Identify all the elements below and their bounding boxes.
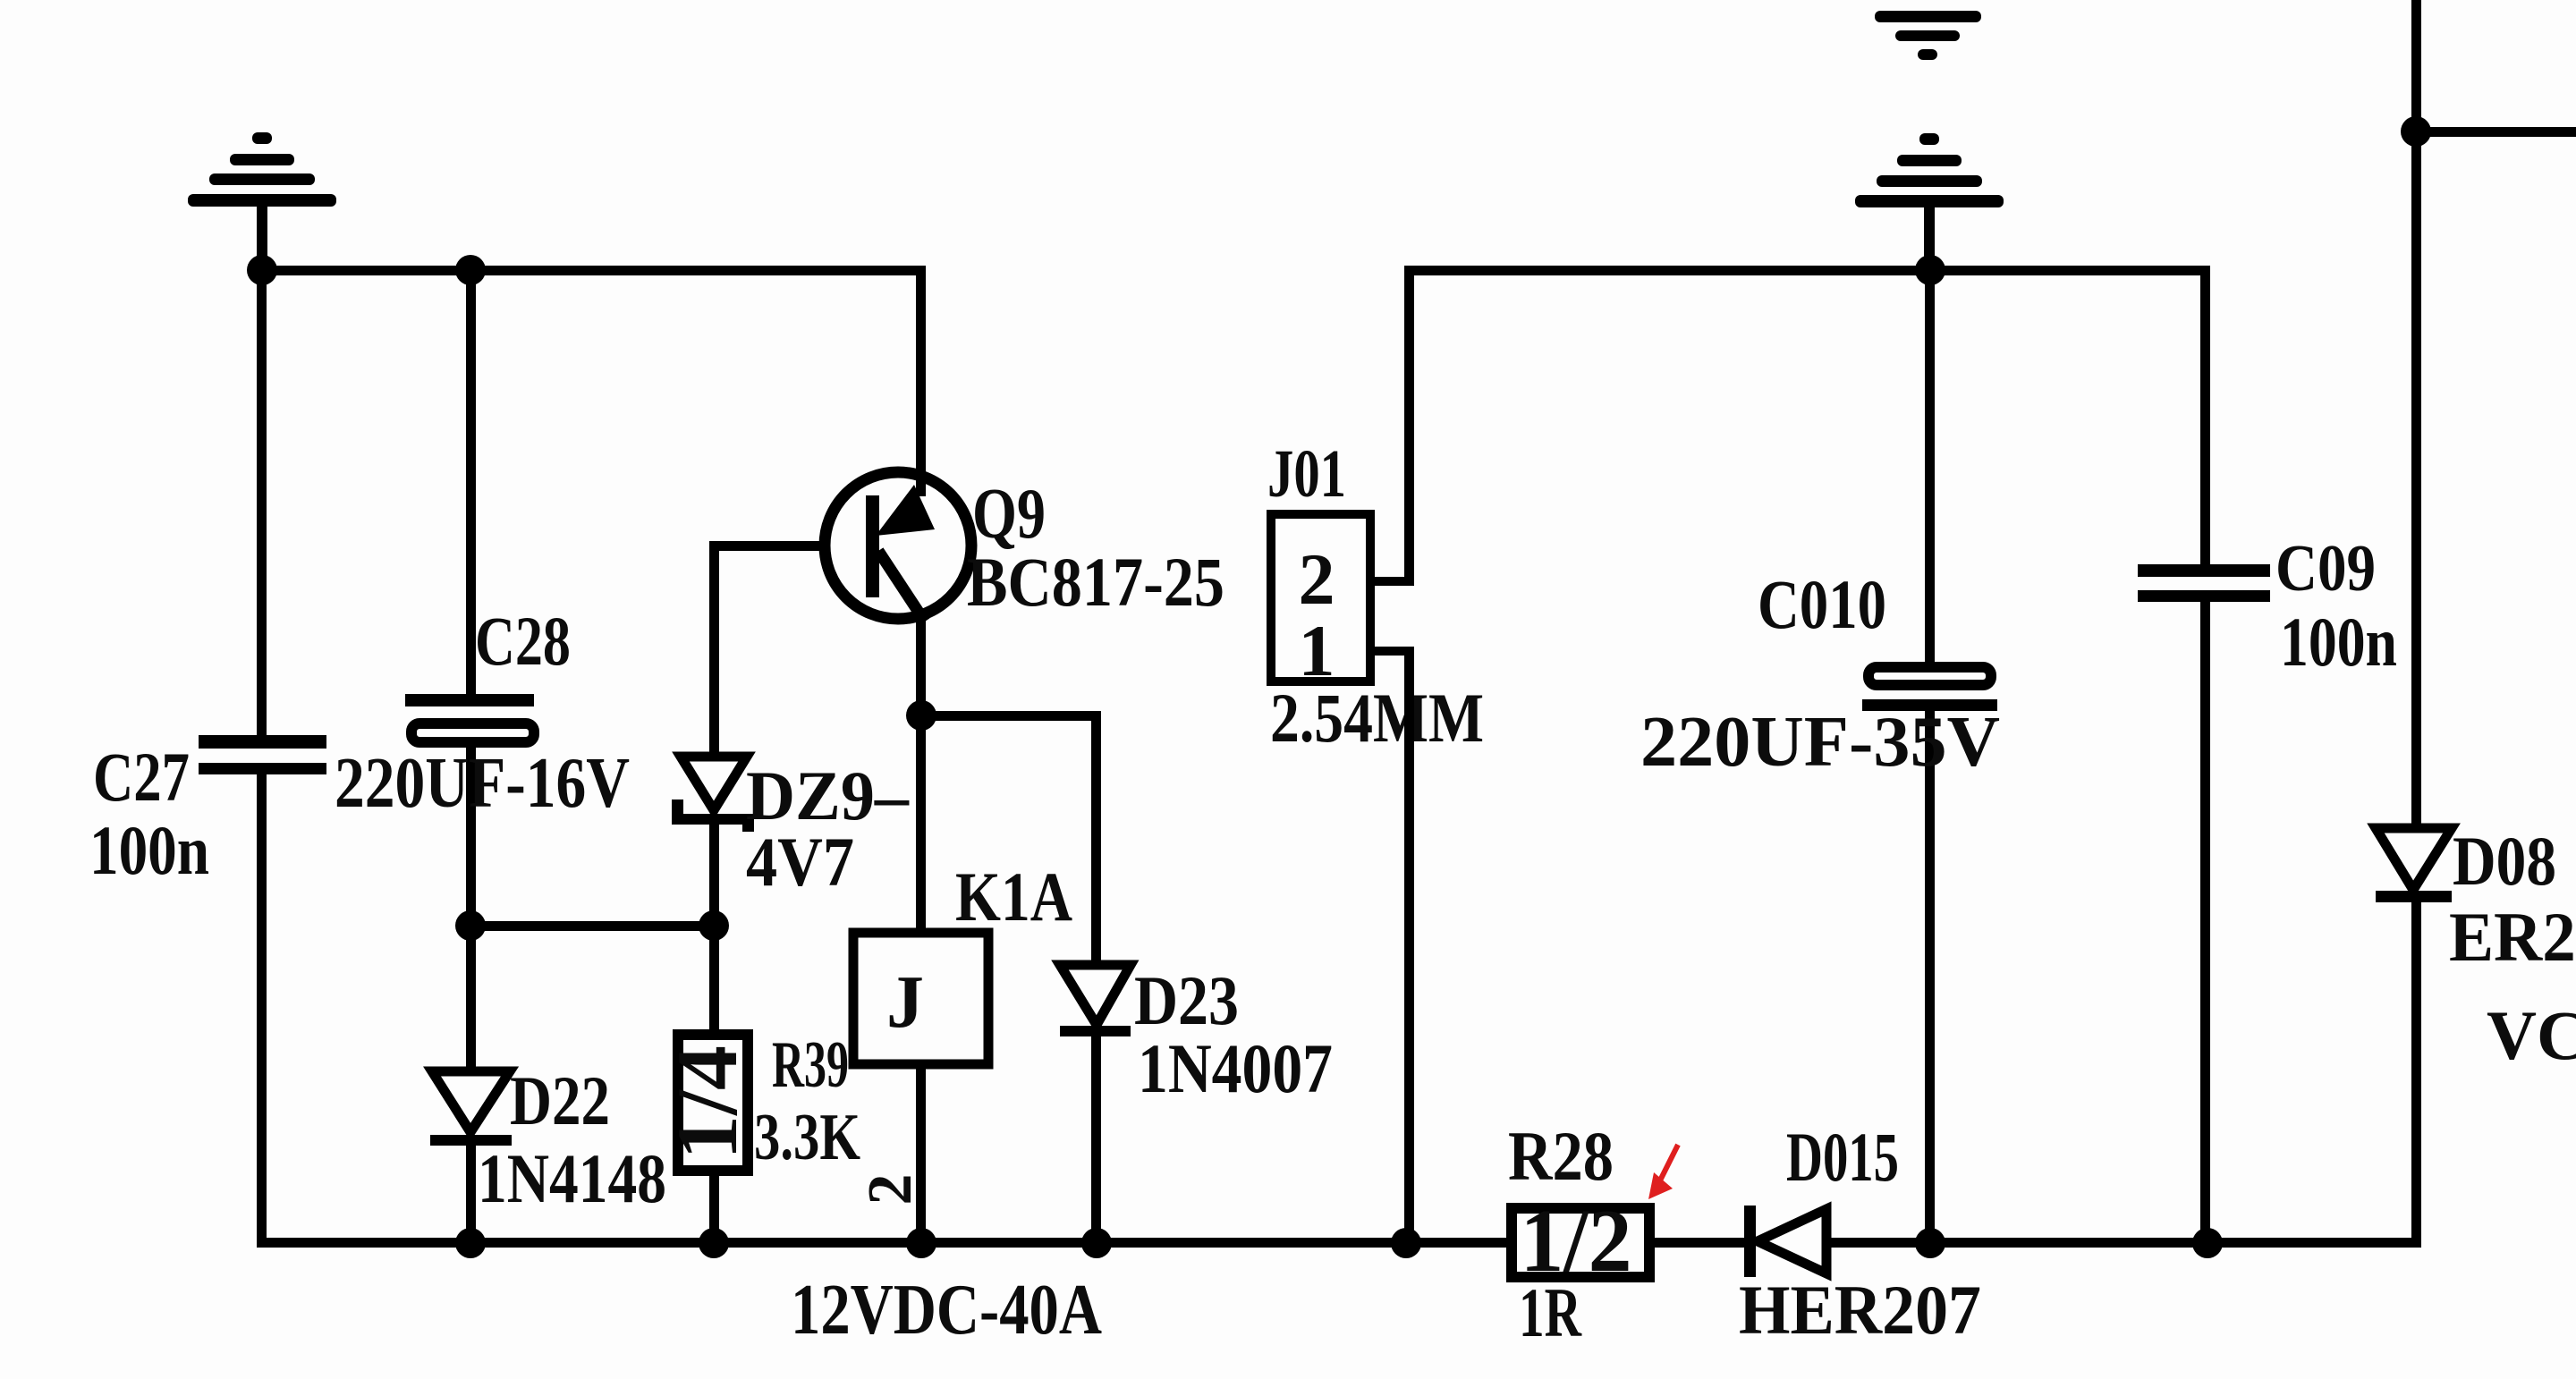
wire: bottom bus left segment (y=1390)	[257, 1238, 1506, 1248]
node: bottom bus junction C010 column	[1915, 1228, 1945, 1258]
svg-text:R28: R28	[1508, 1117, 1614, 1195]
diode D23	[1060, 965, 1131, 1244]
svg-text:100n: 100n	[2280, 603, 2397, 681]
svg-text:1R: 1R	[1519, 1273, 1582, 1351]
node: junction at (2701,147)	[2401, 116, 2431, 147]
zener diode DZ9	[672, 757, 754, 832]
svg-text:R39: R39	[772, 1028, 849, 1102]
svg-text:C27: C27	[93, 738, 190, 816]
svg-text:HER207: HER207	[1739, 1271, 1981, 1349]
transistor Q9	[825, 472, 971, 622]
wire: DZ9 down to junction and R39	[709, 825, 719, 1035]
capacitor C010	[1862, 270, 1997, 1243]
wire: Q9 base lead to left then down	[709, 541, 829, 551]
diode D08	[2376, 828, 2452, 1248]
svg-text:100n: 100n	[89, 811, 209, 889]
resistor R28	[1512, 1190, 1649, 1290]
wire: bottom bus right segment	[1826, 1238, 2420, 1248]
node: bottom bus junction J01 pin1 column	[1391, 1228, 1421, 1258]
node: bottom bus junction C28/D22 column	[455, 1228, 486, 1258]
wire: branch to D23 (y=800)	[921, 711, 1101, 721]
wire: Q9 collector down to K1A	[916, 608, 926, 932]
ground symbol (top left)	[188, 132, 336, 270]
capacitor C28	[405, 270, 534, 930]
wire: horizontal joining C28 column to DZ9 column (y=1035)	[470, 921, 714, 931]
wire: J01 pin2 up to right bus	[1404, 266, 1414, 586]
svg-text:ER2D: ER2D	[2449, 898, 2576, 976]
svg-text:2: 2	[856, 1174, 925, 1206]
wire: stub to right edge (y=147)	[2416, 127, 2576, 137]
node: junction at (798,1035)	[699, 910, 729, 941]
capacitor C27	[199, 270, 326, 1245]
svg-text:C28: C28	[475, 602, 571, 680]
svg-text:C09: C09	[2275, 532, 2376, 605]
svg-text:C010: C010	[1758, 565, 1886, 643]
svg-text:J: J	[886, 960, 924, 1044]
node: bottom bus junction R39 column	[699, 1228, 729, 1258]
ground symbol (top right, with stem)	[1855, 133, 2004, 270]
node: junction right bus / C010 column	[1915, 255, 1945, 285]
node: junction top bus / C27 column	[247, 255, 277, 285]
wire: far right vertical	[2411, 0, 2421, 828]
wire: R28 to D015	[1652, 1238, 1747, 1248]
svg-text:D23: D23	[1134, 961, 1239, 1039]
node: junction at (1030,800)	[906, 700, 936, 731]
connector J01	[1271, 514, 1410, 691]
svg-text:1N4007: 1N4007	[1138, 1029, 1333, 1107]
node: bottom bus junction C09 column	[2192, 1228, 2223, 1258]
node: junction at (526,1035)	[455, 910, 486, 941]
resistor R39	[659, 1024, 755, 1243]
diode D22	[430, 926, 512, 1244]
svg-text:2.54MM: 2.54MM	[1270, 679, 1484, 757]
pin label 2 (K1A bottom, rotated)	[856, 1174, 925, 1206]
relay coil K1A	[853, 933, 988, 1245]
svg-text:VCC: VCC	[2487, 996, 2576, 1074]
wire: corner down to C09	[2200, 266, 2210, 570]
wire: top-left bus (y=302)	[257, 266, 926, 275]
svg-text:1N4148: 1N4148	[478, 1139, 666, 1217]
svg-text:220UF-16V: 220UF-16V	[335, 744, 630, 823]
svg-text:D015: D015	[1786, 1118, 1899, 1196]
capacitor C09	[2138, 564, 2270, 1248]
annotation: red arrow	[1648, 1145, 1678, 1199]
node: junction top bus / C28 column	[455, 255, 486, 285]
node: bottom bus junction K1A column	[906, 1228, 936, 1258]
svg-text:1/4: 1/4	[659, 1045, 755, 1160]
svg-text:2: 2	[1299, 538, 1335, 620]
svg-text:BC817-25: BC817-25	[967, 543, 1224, 621]
svg-text:D08: D08	[2453, 822, 2556, 900]
diode D015	[1744, 1206, 1826, 1277]
svg-text:220UF-35V: 220UF-35V	[1640, 703, 2000, 782]
svg-text:4V7: 4V7	[746, 823, 854, 901]
svg-text:12VDC-40A: 12VDC-40A	[791, 1271, 1102, 1349]
wire: top-right bus (y=302)	[1404, 266, 2209, 275]
svg-text:3.3K: 3.3K	[754, 1101, 860, 1174]
node: bottom bus junction D23 column	[1081, 1228, 1112, 1258]
wire: J01 pin1 down to bottom bus	[1404, 647, 1414, 1243]
svg-text:J01: J01	[1267, 436, 1346, 512]
svg-text:D22: D22	[510, 1062, 610, 1139]
ground symbol (very top right, inverted)	[1875, 11, 1981, 60]
svg-text:K1A: K1A	[955, 858, 1072, 935]
svg-text:Q9: Q9	[972, 475, 1046, 554]
wire: corner down to Q9 emitter	[916, 266, 926, 496]
